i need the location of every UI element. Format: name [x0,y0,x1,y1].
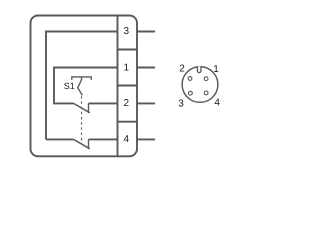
connector face circle [182,67,218,103]
terminal divider 1/2 [118,85,138,87]
mechanical link (dashed) [81,96,83,144]
svg-text:3: 3 [124,26,130,37]
contact B blade [74,139,90,148]
svg-text:1: 1 [213,64,219,75]
contact B fixed tick [88,139,90,147]
wire pin1 right [137,67,155,69]
wire pin4 right [137,138,155,140]
wire pin2 right [137,102,155,104]
pin 2 hole [188,77,192,81]
contact A fixed tick [88,103,90,111]
wire: contact A right lead to pin2 [89,102,118,104]
wire pin3 right [137,31,155,33]
wire: contact B right lead to pin4 [89,138,118,140]
svg-text:4: 4 [124,134,130,145]
svg-text:2: 2 [179,63,185,74]
terminal column left edge [117,16,119,157]
terminal divider 2/4 [118,121,138,123]
svg-text:1: 1 [124,63,130,74]
switch S1 head staple [72,77,91,80]
svg-text:4: 4 [214,97,220,108]
wire: contact B left lead [46,138,74,140]
switch S1 head stub [81,77,83,80]
keyway notch [197,66,201,72]
wire pin1 to S1 branch [54,68,118,104]
svg-text:3: 3 [178,98,184,109]
switch S1 actuator chevron [78,80,83,95]
svg-text:2: 2 [124,98,130,109]
wire loop pin3: top edge [46,32,118,140]
terminal divider 3/1 [118,49,138,51]
svg-text:S1: S1 [64,81,75,91]
sensor body outline [31,16,138,157]
pin 3 hole [189,91,193,95]
pin 1 hole [204,77,208,81]
contact A blade [74,103,90,112]
pin 4 hole [204,91,208,95]
